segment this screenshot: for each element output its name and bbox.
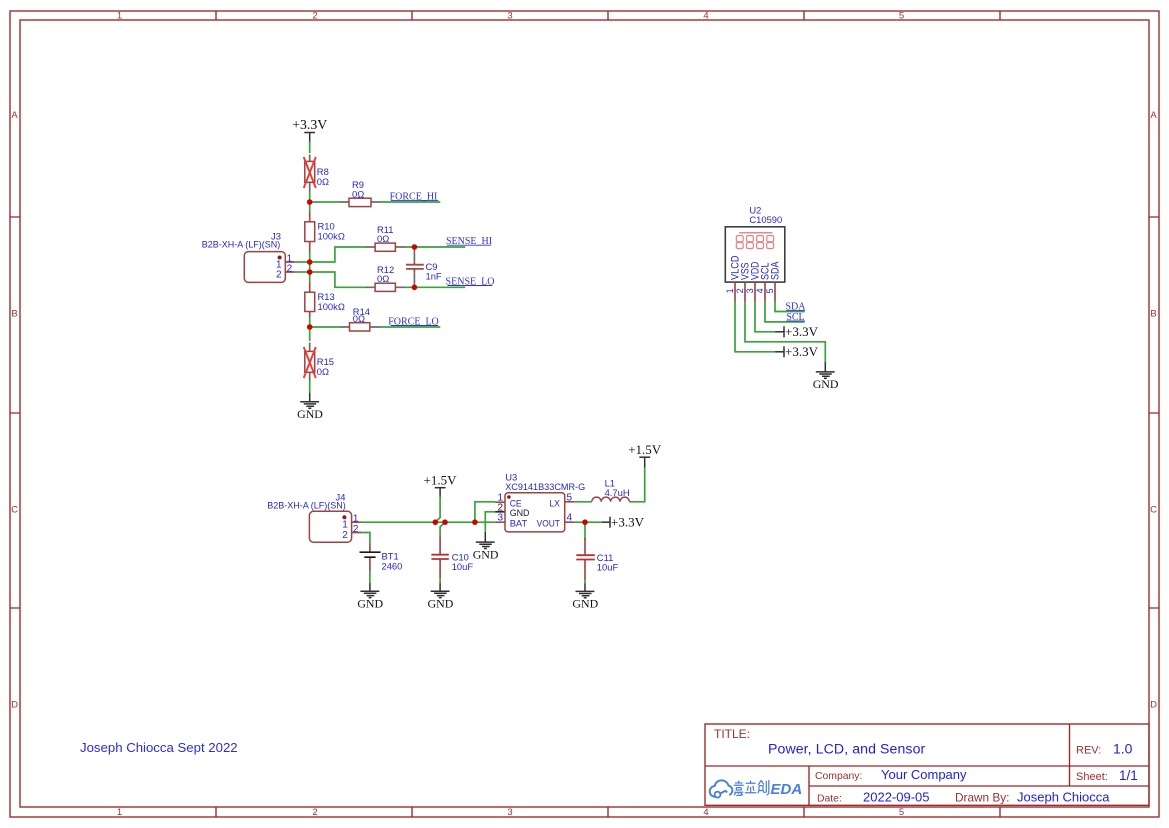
resistor R15 (DNP) (304, 343, 334, 382)
svg-text:5: 5 (899, 807, 904, 818)
svg-text:0Ω: 0Ω (353, 313, 365, 324)
svg-text:Your Company: Your Company (881, 767, 967, 782)
wire LX to L1 (575, 501, 592, 503)
wire R9 to FORCE_HI (381, 201, 441, 203)
svg-text:B2B-XH-A (LF)(SN): B2B-XH-A (LF)(SN) (202, 239, 281, 250)
junction node2 (307, 269, 313, 275)
column ticks bottom (216, 807, 1000, 817)
pin stubs (735, 282, 775, 302)
resistor R12 (365, 264, 406, 292)
company/date row divider (809, 785, 1149, 787)
svg-text:0Ω: 0Ω (377, 233, 389, 244)
JLC EDA logo cloud (710, 780, 733, 797)
svg-text:GND: GND (473, 547, 499, 561)
svg-text:B: B (1150, 309, 1156, 320)
column labels top (117, 11, 904, 22)
ground BT1 (357, 583, 383, 610)
wire BT1 to GND (369, 571, 371, 583)
power flag +3.3V top (292, 117, 327, 142)
svg-text:TITLE:: TITLE: (714, 727, 750, 741)
svg-text:GND: GND (572, 597, 598, 611)
row ticks right (1149, 217, 1159, 608)
wire node to R9 (310, 201, 340, 203)
logo text jiali chuang (734, 780, 769, 795)
wire L1 to +1.5V (629, 467, 644, 502)
svg-text:3: 3 (497, 513, 503, 524)
column labels bottom (117, 807, 904, 818)
svg-text:+3.3V: +3.3V (611, 514, 645, 529)
battery BT1 (360, 545, 403, 572)
TITLEBLOCK (705, 724, 1149, 805)
svg-text:2: 2 (312, 807, 317, 818)
svg-text:2: 2 (312, 11, 317, 22)
wire +1.5V down with jog (435, 497, 440, 523)
resistor R14 (340, 306, 380, 331)
resistor R10 (305, 212, 345, 252)
wire C10 jog (440, 522, 445, 537)
svg-text:A: A (11, 110, 18, 121)
svg-text:4: 4 (703, 807, 708, 818)
svg-text:4: 4 (755, 288, 765, 293)
svg-text:REV:: REV: (1076, 745, 1101, 757)
svg-text:1/1: 1/1 (1119, 768, 1138, 783)
wire R11 to SENSE_HI (406, 246, 466, 248)
svg-text:2: 2 (342, 530, 348, 541)
wire node1 to J3 pin1 (295, 261, 309, 263)
svg-text:U3: U3 (505, 471, 517, 482)
svg-text:+1.5V: +1.5V (424, 473, 458, 488)
wire U3 GND pin (485, 512, 495, 533)
wire R14 to FORCE_LO (380, 326, 441, 328)
svg-text:B: B (11, 309, 17, 320)
svg-text:100kΩ: 100kΩ (318, 301, 345, 312)
wire R8 to node (309, 192, 311, 203)
column ticks top (216, 11, 1000, 20)
svg-text:1: 1 (117, 807, 122, 818)
power flag +1.5V above C10 (424, 473, 458, 498)
svg-text:5: 5 (567, 493, 573, 504)
wire pin4 to SCL (765, 301, 805, 322)
capacitor C9 (406, 247, 442, 287)
wire node1 to R11 (310, 247, 365, 262)
wire node3 to R14 (310, 326, 340, 328)
svg-text:+3.3V: +3.3V (785, 344, 819, 359)
wire J4.2 to BT1 (362, 533, 370, 546)
inductor L1 (592, 477, 630, 501)
power flag +3.3V VOUT (602, 514, 645, 529)
svg-text:0Ω: 0Ω (352, 188, 364, 199)
svg-text:2: 2 (497, 502, 503, 513)
svg-text:3: 3 (507, 11, 512, 22)
junction node1 (307, 259, 313, 265)
svg-text:Joseph Chiocca: Joseph Chiocca (1017, 789, 1110, 804)
wire node2 to R12 (310, 272, 365, 287)
net label SENSE_HI (446, 236, 492, 247)
wire pin1 to +3.3V (735, 301, 776, 351)
junction R9 node (307, 199, 313, 205)
connector J3 (202, 230, 296, 282)
svg-text:2: 2 (287, 264, 293, 275)
row ticks left (10, 217, 20, 608)
CIRCUIT2 (267, 442, 662, 610)
wire R12 to SENSE_LO (406, 286, 466, 288)
svg-text:+3.3V: +3.3V (292, 117, 327, 132)
wire pin3 to +3.3V (755, 301, 776, 331)
title row divider (705, 765, 1149, 767)
svg-text:2: 2 (353, 524, 359, 535)
row labels right (1150, 110, 1157, 711)
svg-text:1.0: 1.0 (1113, 741, 1133, 757)
svg-text:2: 2 (735, 288, 745, 293)
net label FORCE_HI (390, 191, 439, 202)
power flag +3.3V pin3 (775, 324, 818, 339)
svg-text:+3.3V: +3.3V (785, 324, 819, 339)
svg-text:10uF: 10uF (597, 561, 619, 572)
svg-text:Power, LCD, and Sensor: Power, LCD, and Sensor (768, 741, 926, 757)
svg-text:3: 3 (745, 288, 755, 293)
junction C10 node (442, 519, 448, 525)
wire node2 to R13 (309, 272, 311, 282)
wire R15 to GND (309, 381, 311, 393)
ground C11 (572, 584, 598, 611)
wire R10 to node1 (309, 252, 311, 263)
wire node3 to R15 (309, 327, 311, 341)
svg-text:Sheet:: Sheet: (1076, 771, 1108, 783)
svg-text:1nF: 1nF (426, 270, 442, 281)
lcd digits 8888 (736, 236, 773, 249)
row labels left (11, 110, 18, 711)
svg-text:Date:: Date: (817, 793, 842, 804)
junction C9 bottom (412, 285, 418, 291)
svg-text:5: 5 (765, 288, 775, 293)
svg-text:GND: GND (428, 596, 454, 610)
rev/sheet cell divider (1069, 724, 1071, 786)
svg-text:D: D (11, 700, 18, 711)
svg-text:1: 1 (725, 288, 735, 293)
svg-text:4: 4 (703, 11, 708, 22)
CIRCUIT3 (725, 205, 839, 392)
connector J4 (267, 491, 361, 542)
resistor R9 (340, 179, 381, 207)
svg-text:GND: GND (510, 507, 530, 518)
ground U2 (813, 362, 839, 391)
svg-text:5: 5 (899, 11, 904, 22)
ground U3 (473, 532, 499, 561)
svg-text:2: 2 (276, 270, 282, 281)
svg-text:Company:: Company: (815, 771, 862, 782)
svg-text:4.7uH: 4.7uH (605, 487, 630, 498)
resistor R13 (305, 282, 345, 317)
IC U2 LCD (725, 205, 785, 302)
ground R15 (297, 393, 323, 421)
svg-text:Joseph Chiocca Sept 2022: Joseph Chiocca Sept 2022 (80, 740, 238, 755)
capacitor C10 (431, 537, 473, 579)
svg-text:XC9141B33CMR-G: XC9141B33CMR-G (505, 482, 585, 492)
svg-text:B2B-XH-A (LF)(SN): B2B-XH-A (LF)(SN) (267, 499, 346, 510)
net label SENSE_LO (446, 276, 495, 287)
wire J4.1 to U3 BAT (362, 521, 496, 523)
net label SDA (785, 302, 806, 313)
wire C11 to GND (584, 580, 586, 584)
junction C9 top (412, 244, 418, 250)
ground C10 (428, 584, 454, 611)
svg-text:SCL: SCL (786, 312, 804, 323)
svg-text:A: A (1150, 110, 1157, 121)
svg-text:D: D (1150, 700, 1157, 711)
lcd bar (739, 232, 772, 234)
svg-text:1: 1 (117, 11, 122, 22)
svg-text:100kΩ: 100kΩ (318, 230, 345, 241)
wire CE branch (475, 502, 495, 522)
svg-text:SDA: SDA (769, 261, 781, 280)
svg-text:0Ω: 0Ω (317, 176, 329, 187)
power flag +3.3V pin1 (775, 344, 818, 359)
title block outline (705, 724, 1149, 805)
svg-text:4: 4 (567, 513, 573, 524)
svg-text:C: C (1150, 505, 1157, 516)
junction +1.5V node (433, 519, 439, 525)
CIRCUIT1 (202, 117, 495, 421)
junction VOUT node (582, 519, 588, 525)
svg-text:+1.5V: +1.5V (628, 442, 662, 457)
net label SCL (786, 312, 805, 323)
svg-text:EDA: EDA (771, 781, 803, 798)
wire pin5 to SDA (775, 301, 805, 311)
wire VOUT to +3.3V (575, 521, 603, 523)
junction node3 (307, 324, 313, 330)
svg-text:10uF: 10uF (452, 561, 474, 572)
svg-text:2022-09-05: 2022-09-05 (863, 789, 930, 804)
capacitor C11 (576, 538, 618, 580)
svg-text:Drawn By:: Drawn By: (955, 790, 1009, 804)
wire R13 to node3 (309, 317, 311, 327)
wire C10 to GND (439, 579, 441, 584)
wire node1-node2 (309, 262, 311, 272)
logo cell divider (808, 766, 810, 805)
svg-text:0Ω: 0Ω (377, 273, 389, 284)
wire node to R10 (309, 202, 311, 212)
svg-text:2460: 2460 (382, 561, 403, 572)
svg-text:C: C (11, 505, 18, 516)
svg-text:3: 3 (507, 807, 512, 818)
svg-text:C10590: C10590 (749, 214, 782, 225)
power flag +1.5V right (628, 442, 662, 467)
wire node2 to J3 pin2 (295, 271, 309, 273)
net label FORCE_LO (388, 316, 439, 327)
svg-text:BAT: BAT (510, 518, 528, 529)
wire +3.3V to R8 (309, 142, 311, 154)
svg-text:VOUT: VOUT (537, 518, 561, 529)
svg-text:0Ω: 0Ω (317, 366, 329, 377)
resistor R8 (DNP) (304, 155, 329, 192)
wire VOUT node to C11 (584, 522, 586, 540)
svg-text:GND: GND (297, 407, 323, 421)
svg-text:LX: LX (549, 497, 560, 508)
svg-text:GND: GND (813, 377, 839, 391)
resistor R11 (365, 224, 406, 252)
IC U3 (495, 471, 585, 532)
junction U3 CE node (472, 519, 478, 525)
svg-text:GND: GND (357, 596, 383, 610)
wire pin2 to GND (745, 301, 825, 362)
